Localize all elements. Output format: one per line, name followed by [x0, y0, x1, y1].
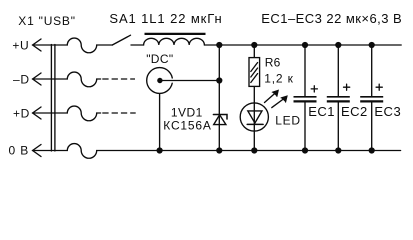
- LED triangle: [248, 111, 262, 123]
- svg-text:+U: +U: [12, 38, 29, 52]
- node bottom rail EC1: [302, 147, 308, 153]
- label KC156A: [163, 118, 211, 132]
- inductor 1L1 windings: [144, 38, 205, 45]
- label SA1 1L1 22 mkGn: [109, 11, 222, 26]
- node top rail EC1: [302, 42, 308, 48]
- label 1VD1: [171, 106, 203, 120]
- node bottom rail zener: [216, 147, 222, 153]
- svg-text:"DC": "DC": [146, 52, 173, 66]
- svg-text:SA1 1L1 22 мкГн: SA1 1L1 22 мкГн: [109, 11, 222, 26]
- LED cathode bar: [247, 123, 263, 125]
- capacitor EC2 bottom lead: [337, 103, 339, 151]
- capacitor EC1 polarity plus: [311, 86, 317, 92]
- label EC2: [341, 104, 368, 119]
- capacitor EC2 polarity plus: [344, 84, 350, 90]
- label LED: [275, 114, 300, 128]
- pin label +D: [13, 106, 30, 120]
- capacitor EC3 plates: [360, 97, 383, 102]
- svg-text:LED: LED: [275, 114, 300, 128]
- wire R6 LED branch vertical: [253, 45, 255, 151]
- pin label +U: [12, 38, 29, 52]
- label EC1-EC3 22 mk x 6,3 V: [261, 11, 402, 26]
- node top rail zener: [216, 42, 222, 48]
- capacitor EC1 top lead: [304, 45, 306, 96]
- DC jack label: [146, 52, 173, 66]
- arrow pin 0 B: [33, 145, 41, 157]
- svg-text:–D: –D: [13, 72, 30, 86]
- node bottom rail DC sleeve: [157, 147, 163, 153]
- svg-text:X1 "USB": X1 "USB": [18, 14, 75, 28]
- capacitor EC1 bottom lead: [304, 103, 306, 151]
- node bottom rail EC2: [335, 147, 341, 153]
- svg-text:EC1–EC3 22 мк×6,3 В: EC1–EC3 22 мк×6,3 В: [261, 11, 402, 26]
- wire DC jack pin to node: [160, 80, 219, 82]
- LED emission arrow 2: [272, 96, 287, 108]
- zener VD1 cathode bar: [213, 115, 227, 120]
- svg-text:1,2 к: 1,2 к: [264, 71, 294, 85]
- wire zener branch vertical: [218, 45, 220, 151]
- capacitor EC1 plates: [294, 97, 317, 102]
- node top rail R6: [251, 42, 257, 48]
- svg-text:EC3: EC3: [374, 104, 401, 119]
- capacitor EC2 plates: [327, 97, 350, 102]
- node bottom rail LED: [251, 147, 257, 153]
- wire -D row with cable wave, dashed stub: [33, 72, 135, 87]
- svg-text:EC1: EC1: [308, 104, 335, 119]
- wire +D row with cable wave, dashed stub: [33, 106, 136, 121]
- inductor 1L1 core bar: [145, 33, 206, 35]
- pin label -D: [13, 72, 30, 86]
- svg-text:R6: R6: [265, 56, 281, 70]
- svg-text:+D: +D: [13, 106, 30, 120]
- capacitor EC3 top lead: [371, 45, 373, 96]
- connector X1 "USB" label: [18, 14, 75, 28]
- label EC1: [308, 104, 335, 119]
- node junction DC pin: [216, 77, 222, 83]
- wire +U row with cable wave: [33, 38, 113, 53]
- label R6: [265, 56, 281, 70]
- svg-text:0 В: 0 В: [9, 144, 30, 158]
- svg-text:КС156А: КС156А: [163, 118, 211, 132]
- node top rail EC3: [369, 42, 375, 48]
- capacitor EC3 polarity plus: [376, 84, 382, 90]
- LED circle: [240, 103, 268, 131]
- arrow pin -D: [33, 73, 41, 85]
- arrow pin +U: [33, 39, 41, 51]
- wire 0 B bottom rail with cable wave: [33, 144, 401, 159]
- node top rail EC2: [335, 42, 341, 48]
- node bottom rail EC3: [369, 147, 375, 153]
- resistor R6 body: [249, 58, 260, 87]
- connector X1 double line: [51, 45, 55, 152]
- DC jack center pin dot: [157, 78, 162, 83]
- wire DC jack sleeve to bottom rail: [159, 94, 161, 151]
- label 1,2 k: [264, 71, 294, 85]
- capacitor EC2 top lead: [337, 45, 339, 96]
- wire top rail inductor to right end: [204, 44, 401, 46]
- DC jack circle: [147, 68, 174, 94]
- zener VD1 triangle: [214, 115, 226, 125]
- wire switch to inductor: [131, 44, 144, 46]
- arrow pin +D: [33, 107, 41, 119]
- svg-text:EC2: EC2: [341, 104, 368, 119]
- resistor R6 power strokes: [251, 63, 258, 83]
- LED emission arrow 1: [265, 90, 279, 102]
- capacitor EC3 bottom lead: [371, 103, 373, 151]
- label EC3: [374, 104, 401, 119]
- pin label 0 B: [9, 144, 30, 158]
- switch SA1 blade: [112, 35, 130, 45]
